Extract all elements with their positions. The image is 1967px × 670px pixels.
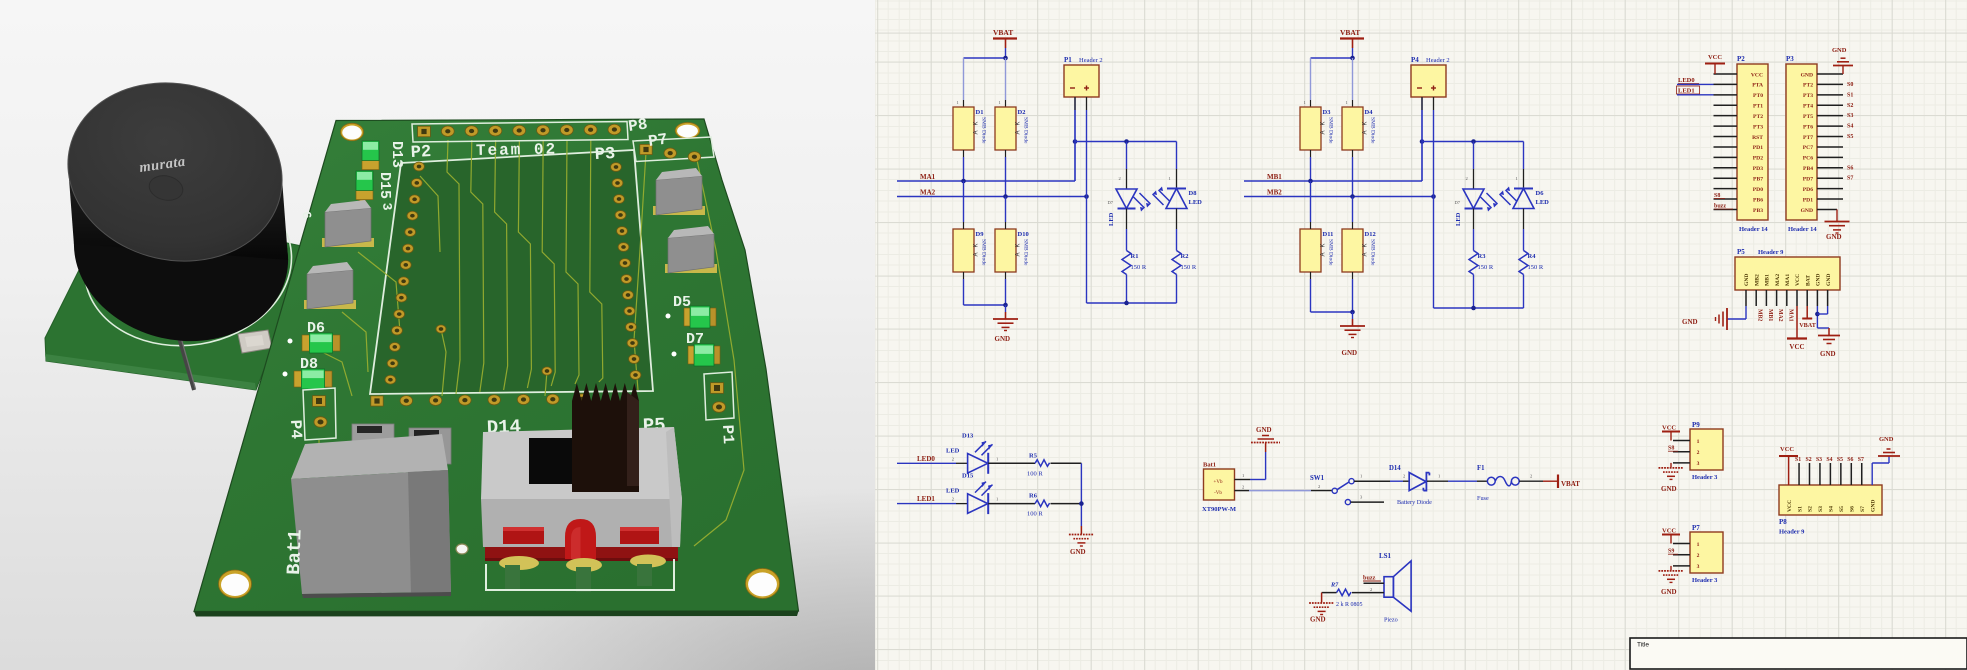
svg-text:PT2: PT2	[1803, 83, 1813, 89]
wire LED bottom rail	[1434, 197, 1524, 311]
svg-text:F1: F1	[1477, 465, 1485, 472]
diode D2 SMB	[995, 100, 1029, 150]
svg-text:MA1: MA1	[1787, 309, 1793, 322]
svg-text:S7: S7	[1858, 457, 1864, 463]
net label MB1	[1267, 173, 1282, 181]
svg-text:Battery Diode: Battery Diode	[1397, 499, 1432, 506]
svg-text:A K: A K	[974, 243, 980, 256]
net label buzz (P2 pin14)	[1714, 204, 1733, 210]
net label S4 (P8)	[1826, 457, 1832, 463]
svg-text:100 R: 100 R	[1027, 470, 1043, 477]
svg-text:D8: D8	[1189, 190, 1198, 197]
svg-text:2: 2	[1530, 474, 1532, 479]
net label S6	[1847, 165, 1853, 171]
svg-text:BAT: BAT	[1805, 275, 1811, 286]
svg-text:3: 3	[1360, 495, 1363, 500]
svg-text:D11: D11	[1323, 231, 1334, 238]
svg-text:S1: S1	[1797, 506, 1803, 512]
svg-text:GND: GND	[1801, 208, 1813, 214]
svg-text:D13: D13	[962, 432, 974, 439]
silkscreen labels	[286, 115, 737, 444]
svg-text:A K: A K	[1016, 243, 1022, 256]
svg-text:S5: S5	[1839, 506, 1845, 512]
svg-text:SMB Diode: SMB Diode	[1023, 117, 1029, 144]
svg-text:PC6: PC6	[1803, 156, 1813, 162]
tantalum capacitor C? upper-right	[653, 168, 705, 215]
svg-text:150 R: 150 R	[1181, 264, 1197, 271]
svg-text:LS1: LS1	[1379, 552, 1392, 560]
svg-text:R1: R1	[1131, 253, 1139, 260]
svg-text:S5: S5	[1847, 134, 1853, 140]
wire P4 pin2	[1433, 97, 1435, 197]
pcb sub-board (buzzer carrier)	[45, 222, 306, 390]
svg-text:buzz: buzz	[1363, 575, 1376, 582]
svg-text:D15: D15	[376, 172, 393, 199]
svg-text:P5: P5	[1737, 248, 1745, 256]
svg-text:MB1: MB1	[1767, 309, 1773, 321]
svg-text:PT4: PT4	[1803, 104, 1813, 110]
svg-text:SW1: SW1	[1310, 475, 1325, 482]
wire LED top rail	[1075, 139, 1177, 144]
svg-text:S5: S5	[1837, 457, 1843, 463]
net label S3 (P8)	[1816, 457, 1822, 463]
svg-text:PB3: PB3	[1753, 208, 1763, 214]
svg-text:P7: P7	[1692, 524, 1700, 532]
svg-text:MA1: MA1	[1785, 274, 1791, 286]
svg-text:RST: RST	[1752, 135, 1763, 141]
net label MA2	[920, 189, 936, 197]
svg-text:LED0: LED0	[917, 455, 935, 463]
svg-text:1: 1	[1304, 100, 1306, 105]
connector P4 pads	[303, 388, 336, 440]
svg-text:VCC: VCC	[1751, 72, 1763, 78]
svg-text:2: 2	[1318, 484, 1320, 489]
svg-text:1: 1	[999, 100, 1001, 105]
net label S0	[1847, 82, 1853, 88]
svg-text:PC7: PC7	[1803, 145, 1813, 151]
net label buzz (LS1 pin1)	[1363, 575, 1384, 584]
svg-text:GND: GND	[1342, 349, 1358, 357]
svg-text:P2: P2	[1737, 55, 1745, 63]
wire diode bottoms to GND	[964, 272, 1008, 312]
svg-text:2: 2	[1403, 474, 1405, 479]
svg-text:VBAT: VBAT	[1561, 480, 1580, 488]
wire diode bottoms to GND	[1311, 272, 1355, 319]
ground GND at P8 pin9	[1872, 436, 1900, 485]
svg-text:VCC: VCC	[1789, 343, 1804, 351]
net label S7 (P8)	[1858, 457, 1864, 463]
svg-text:P9: P9	[1692, 421, 1700, 429]
green LED D5	[666, 306, 717, 328]
power VBAT at P5 pin7	[1799, 306, 1817, 329]
svg-text:2: 2	[1370, 587, 1372, 592]
svg-text:R3: R3	[1478, 253, 1487, 260]
svg-text:MB1: MB1	[1765, 274, 1771, 286]
net label LED1 / wire	[1677, 86, 1738, 95]
svg-text:LED1: LED1	[1678, 88, 1695, 95]
svg-text:Piezo: Piezo	[1384, 617, 1398, 624]
svg-text:VCC: VCC	[1662, 425, 1676, 432]
module socket area (darker) + silkscreen outline	[370, 150, 653, 394]
tantalum capacitor C? lower-left	[304, 262, 356, 309]
svg-text:VBAT: VBAT	[1799, 322, 1817, 329]
resistor R4 150R	[1519, 209, 1544, 309]
slide switch assembly	[481, 383, 682, 592]
svg-text:100 R: 100 R	[1027, 511, 1043, 518]
svg-text:1: 1	[1438, 474, 1440, 479]
svg-text:GND: GND	[995, 335, 1011, 343]
svg-text:SMB Diode: SMB Diode	[1023, 239, 1029, 266]
net label S1	[1847, 92, 1853, 98]
wire to ground / ground GND	[1069, 463, 1094, 556]
net label MB2	[1267, 189, 1282, 197]
svg-text:SMB Diode: SMB Diode	[1370, 239, 1376, 266]
svg-text:D12: D12	[1365, 231, 1376, 238]
svg-text:PT6: PT6	[1803, 124, 1813, 130]
svg-text:A K: A K	[1321, 243, 1327, 256]
svg-text:D4: D4	[1365, 109, 1374, 116]
svg-text:1: 1	[996, 497, 998, 502]
svg-text:A K: A K	[1363, 243, 1369, 256]
svg-text:2: 2	[1466, 176, 1468, 181]
svg-text:P8: P8	[627, 115, 649, 135]
ground GND (P1 block)	[993, 312, 1018, 343]
net label S2	[1847, 103, 1853, 109]
header P5 (Header 9)	[1735, 248, 1840, 306]
svg-text:GND: GND	[1826, 274, 1832, 286]
svg-text:MB2: MB2	[1267, 189, 1282, 197]
svg-text:A K: A K	[1016, 121, 1022, 134]
wire P1 pin1	[1074, 97, 1076, 181]
header P3 pad column	[611, 163, 641, 380]
LED D7	[1108, 142, 1151, 227]
svg-text:150 R: 150 R	[1528, 264, 1544, 271]
tantalum capacitor C? upper-left	[322, 200, 374, 247]
diode D11 SMB	[1300, 181, 1334, 272]
svg-text:S4: S4	[1829, 506, 1835, 512]
svg-text:Bat1: Bat1	[283, 529, 307, 575]
diode D3 SMB	[1300, 100, 1334, 150]
diode D10 SMB	[995, 197, 1029, 273]
power VBAT (P4 block)	[1340, 28, 1364, 48]
svg-text:MB2: MB2	[1754, 274, 1760, 286]
LED D13 (status LED0)	[897, 432, 1081, 477]
svg-text:2 k R 0805: 2 k R 0805	[1336, 602, 1363, 608]
mounting holes	[219, 123, 780, 599]
svg-text:GND: GND	[1801, 72, 1813, 78]
ground GND at P5 pins 8-9	[1815, 306, 1840, 358]
LED D6	[1500, 142, 1550, 209]
svg-text:Header 9: Header 9	[1758, 249, 1784, 256]
ground GND at P9 pin3	[1659, 463, 1684, 493]
svg-text:150 R: 150 R	[1478, 264, 1494, 271]
svg-text:MA2: MA2	[1775, 274, 1781, 286]
buzzer lead pin	[178, 334, 196, 390]
svg-text:2: 2	[1697, 450, 1700, 456]
svg-text:P8: P8	[1779, 518, 1787, 526]
wire P1 pin2	[1086, 97, 1088, 197]
svg-text:1: 1	[1697, 439, 1700, 445]
resistor R3 150R	[1469, 209, 1494, 309]
ground GND at P5 pin1 (left)	[1682, 306, 1746, 330]
svg-text:VCC: VCC	[1780, 446, 1794, 453]
svg-text:S6: S6	[1847, 165, 1853, 171]
svg-text:P4: P4	[286, 419, 305, 440]
svg-text:1: 1	[1242, 473, 1244, 478]
svg-text:3: 3	[379, 202, 395, 211]
header P8 (Header 9)	[1779, 463, 1882, 536]
svg-text:S3: S3	[1847, 113, 1853, 119]
svg-text:A K: A K	[974, 121, 980, 134]
header P3 (Header 14)	[1786, 55, 1843, 233]
svg-text:XT90PW-M: XT90PW-M	[1202, 506, 1236, 513]
svg-text:GND: GND	[1832, 47, 1847, 54]
svg-text:Header 3: Header 3	[1692, 474, 1718, 481]
svg-text:D15: D15	[962, 473, 974, 480]
svg-text:PT5: PT5	[1803, 114, 1813, 120]
ground GND (piezo)	[1309, 593, 1336, 624]
svg-text:S4: S4	[1826, 457, 1832, 463]
net label S2 (P8)	[1806, 457, 1812, 463]
svg-text:GND: GND	[1070, 548, 1086, 556]
green LED D7	[672, 344, 721, 366]
speaker LS1 Piezo	[1379, 552, 1411, 624]
silkscreen buzzer footprint circle R7	[73, 168, 304, 361]
header P9 (Header 3)	[1673, 421, 1723, 481]
ground GND at P3 pin1	[1817, 47, 1853, 74]
svg-text:PT1: PT1	[1753, 104, 1763, 110]
svg-text:VBAT: VBAT	[1340, 28, 1360, 37]
green LED D6	[288, 333, 341, 353]
svg-text:PD6: PD6	[1803, 187, 1813, 193]
resistor R7 2k	[1330, 582, 1384, 609]
svg-text:R6: R6	[1029, 493, 1038, 500]
svg-text:D13: D13	[388, 141, 405, 168]
net label S4	[1847, 124, 1853, 130]
svg-text:D7: D7	[1455, 200, 1461, 205]
svg-text:Header 3: Header 3	[1692, 577, 1718, 584]
svg-text:1: 1	[1346, 100, 1348, 105]
switch SW1	[1310, 474, 1390, 505]
svg-text:2: 2	[952, 497, 954, 502]
svg-text:D10: D10	[1018, 231, 1029, 238]
svg-text:S2: S2	[1808, 506, 1814, 512]
svg-text:GND: GND	[1256, 426, 1272, 434]
header P2 (Header 14)	[1714, 55, 1769, 233]
svg-text:+Vb: +Vb	[1214, 480, 1223, 485]
svg-text:PTA: PTA	[1752, 83, 1763, 89]
svg-text:R7: R7	[1330, 582, 1339, 589]
net label MA1 (P5)	[1787, 309, 1793, 322]
diode D14 Battery Diode	[1389, 465, 1448, 506]
svg-text:SMB Diode: SMB Diode	[981, 117, 987, 144]
diode D12 SMB	[1342, 197, 1376, 273]
svg-text:S7: S7	[1860, 506, 1866, 512]
svg-text:GND: GND	[1310, 616, 1326, 624]
svg-text:1: 1	[957, 100, 959, 105]
svg-text:Bat1: Bat1	[1203, 462, 1216, 469]
net label MA1	[920, 173, 936, 181]
lone vias	[436, 325, 552, 554]
wire net MB1	[1244, 97, 1424, 183]
resistor R1 150R	[1122, 209, 1147, 304]
svg-text:P1: P1	[1064, 56, 1072, 64]
svg-text:GND: GND	[1879, 436, 1894, 443]
wire P4 pin1	[1421, 97, 1423, 181]
svg-text:Header 14: Header 14	[1788, 226, 1817, 233]
svg-text:VBAT: VBAT	[993, 28, 1013, 37]
svg-text:SMB Diode: SMB Diode	[1328, 239, 1334, 266]
svg-text:GND: GND	[1661, 485, 1677, 493]
svg-text:S2: S2	[1806, 457, 1812, 463]
svg-text:SMB Diode: SMB Diode	[981, 239, 987, 266]
svg-text:P4: P4	[1411, 56, 1419, 64]
wire net MB2	[1244, 194, 1436, 199]
svg-text:S6: S6	[1847, 457, 1853, 463]
net label S9 (P7 pin2)	[1668, 549, 1678, 555]
net label LED0 / wire	[1677, 77, 1737, 84]
wire LED bottom rail	[1087, 197, 1177, 306]
ground GND (P4 block)	[1340, 319, 1365, 357]
svg-text:LED: LED	[1536, 199, 1550, 206]
main pcb board	[194, 119, 799, 617]
svg-text:D2: D2	[1018, 109, 1026, 116]
power VCC at P2 pin1	[1705, 54, 1725, 74]
wire net MA2	[897, 194, 1089, 199]
wire D3 to MB1	[1310, 150, 1312, 181]
svg-text:D3: D3	[1323, 109, 1332, 116]
svg-text:PD2: PD2	[1753, 156, 1763, 162]
battery Bat1 XT90PW-M	[1202, 462, 1236, 514]
wire SW1 to D14	[1390, 480, 1403, 482]
svg-text:PT7: PT7	[1803, 135, 1813, 141]
svg-text:GND: GND	[1826, 233, 1842, 241]
svg-text:MB2: MB2	[1757, 309, 1763, 321]
wire Bat1 pin1 to GND	[1234, 452, 1265, 480]
LED D5	[1455, 142, 1498, 227]
power VCC at P8 pin1	[1779, 446, 1798, 485]
pcb traces	[302, 140, 744, 546]
power VCC at P5 pin6	[1787, 306, 1807, 351]
svg-text:LED: LED	[946, 488, 960, 495]
tantalum capacitor C? lower-right	[665, 226, 717, 273]
wire VBAT to diodes	[1311, 48, 1355, 107]
svg-text:P3: P3	[1786, 55, 1794, 63]
svg-text:-Vb: -Vb	[1214, 491, 1222, 496]
svg-text:150 R: 150 R	[1131, 264, 1147, 271]
svg-text:VCC: VCC	[1662, 528, 1676, 535]
svg-text:S0: S0	[1847, 82, 1853, 88]
connector P1 pads	[704, 372, 734, 420]
svg-text:PT0: PT0	[1753, 93, 1763, 99]
svg-text:3: 3	[1697, 461, 1700, 467]
svg-text:P3: P3	[594, 145, 615, 165]
green LED D13	[362, 141, 379, 170]
svg-text:1: 1	[1697, 542, 1700, 548]
power VCC at P7 pin1	[1662, 528, 1680, 544]
svg-text:R5: R5	[1029, 452, 1038, 459]
svg-text:GND: GND	[1820, 350, 1836, 358]
svg-text:S6: S6	[1850, 506, 1856, 512]
battery holder Bat1	[283, 424, 451, 598]
svg-text:Title: Title	[1637, 642, 1649, 649]
svg-text:P7: P7	[647, 130, 669, 150]
net label S8 (P9 pin2)	[1668, 446, 1678, 452]
svg-text:2: 2	[1697, 553, 1700, 559]
svg-text:GND: GND	[1816, 274, 1822, 286]
svg-text:1: 1	[1360, 474, 1362, 479]
svg-text:Header 9: Header 9	[1779, 529, 1805, 536]
svg-text:LED: LED	[1455, 212, 1462, 226]
svg-text:SMB Diode: SMB Diode	[1370, 117, 1376, 144]
green LED D8	[283, 369, 333, 389]
svg-text:A K: A K	[1363, 121, 1369, 134]
wire D4 to MB2	[1352, 150, 1354, 197]
svg-text:GND: GND	[1870, 500, 1876, 512]
svg-text:VCC: VCC	[1787, 500, 1793, 512]
svg-text:MA1: MA1	[920, 173, 936, 181]
net label MB1 (P5)	[1767, 309, 1773, 321]
svg-text:LED1: LED1	[917, 495, 935, 503]
svg-text:1: 1	[1169, 176, 1171, 181]
resistor R2 150R	[1172, 209, 1197, 304]
svg-text:LED: LED	[1189, 199, 1203, 206]
buzzer (murata)	[50, 62, 306, 362]
svg-text:2: 2	[1242, 485, 1244, 490]
svg-text:D7: D7	[1108, 200, 1114, 205]
net label S6 (P8)	[1847, 457, 1853, 463]
net label S3	[1847, 113, 1853, 119]
svg-text:PD1: PD1	[1753, 145, 1763, 151]
wire VBAT to diodes	[964, 48, 1008, 107]
header P7 (Header 3)	[1673, 524, 1723, 584]
net label S5 (P8)	[1837, 457, 1843, 463]
via below D15	[358, 199, 367, 206]
svg-text:1: 1	[996, 456, 998, 461]
net label S7	[1847, 176, 1853, 182]
wire D1 to MA1	[963, 150, 965, 181]
wire D2 to MA2	[1005, 150, 1007, 197]
svg-text:PT3: PT3	[1803, 93, 1813, 99]
svg-text:P2: P2	[410, 143, 431, 163]
LED D15 (status LED1)	[897, 473, 1081, 518]
svg-text:2: 2	[952, 456, 954, 461]
svg-text:Header 2: Header 2	[1426, 57, 1450, 64]
svg-text:VCC: VCC	[1795, 274, 1801, 286]
svg-text:GND: GND	[1744, 274, 1750, 286]
svg-text:R4: R4	[1528, 253, 1537, 260]
svg-text:S4: S4	[1847, 124, 1853, 130]
title block	[1630, 638, 1967, 669]
svg-text:2: 2	[1119, 176, 1121, 181]
diode D1 SMB	[953, 100, 987, 150]
svg-text:P1: P1	[718, 424, 737, 444]
svg-text:LED: LED	[1108, 212, 1115, 226]
header P8 pads (top row)	[412, 122, 628, 143]
svg-text:LED: LED	[946, 447, 960, 454]
svg-text:PD7: PD7	[1803, 177, 1813, 183]
svg-text:D6: D6	[1536, 190, 1545, 197]
svg-text:LED0: LED0	[1678, 77, 1695, 84]
svg-text:A K: A K	[1321, 121, 1327, 134]
ground GND at P3 pin14	[1817, 209, 1850, 241]
wire Bat1 pin2 to SW1	[1234, 485, 1332, 491]
net label S5	[1847, 134, 1853, 140]
wire D14 to F1	[1448, 480, 1477, 482]
svg-text:S3: S3	[1816, 457, 1822, 463]
header P2 pad column	[385, 162, 424, 384]
svg-text:S3: S3	[1818, 506, 1824, 512]
